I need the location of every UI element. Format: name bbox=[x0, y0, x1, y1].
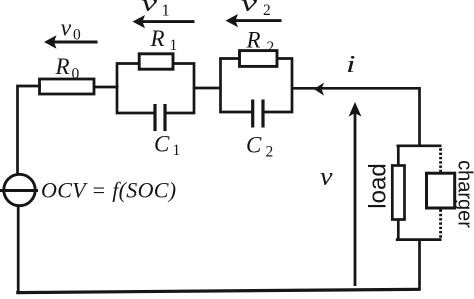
wire left rail upper with R0 left lead bbox=[18, 86, 42, 176]
wire top right with current direction and right rail upper bbox=[292, 88, 420, 146]
svg-text:v: v bbox=[61, 16, 72, 42]
wire bottom rail bbox=[16, 289, 420, 292]
arrow v2 line bbox=[234, 19, 282, 22]
svg-text:R: R bbox=[246, 28, 261, 53]
svg-text:2: 2 bbox=[266, 144, 274, 161]
svg-text:C: C bbox=[246, 133, 262, 158]
wire load branch lower bbox=[397, 219, 400, 240]
label R2 bbox=[246, 28, 275, 57]
arrowhead v up bbox=[349, 102, 362, 117]
svg-text:2: 2 bbox=[263, 2, 271, 19]
arrow v1 line bbox=[141, 20, 195, 23]
label R0 bbox=[55, 54, 80, 83]
voltage source OCV circle bbox=[0, 174, 38, 205]
svg-text:C: C bbox=[154, 132, 170, 157]
wire charger dotted lower bbox=[439, 210, 442, 239]
resistor load box bbox=[392, 166, 404, 220]
wire load branch upper bbox=[397, 146, 400, 167]
svg-text:1: 1 bbox=[162, 1, 170, 20]
svg-text:charger: charger bbox=[454, 160, 474, 228]
wire right rail lower bbox=[418, 239, 421, 291]
label C2 bbox=[246, 133, 273, 161]
arrow v0 line bbox=[52, 41, 98, 44]
svg-text:0: 0 bbox=[72, 66, 80, 83]
arrowhead v0 bbox=[44, 35, 57, 48]
svg-text:OCV = f(SOC): OCV = f(SOC) bbox=[41, 178, 176, 203]
capacitor C2 bbox=[253, 100, 263, 128]
label v0 bbox=[61, 16, 82, 44]
arrow v line bbox=[354, 112, 357, 286]
svg-text:R: R bbox=[150, 26, 165, 51]
svg-text:v: v bbox=[241, 0, 258, 17]
node block R2C2 right half outline bbox=[264, 59, 292, 113]
label R1 bbox=[150, 26, 178, 54]
capacitor C1 bbox=[155, 104, 165, 131]
svg-text:1: 1 bbox=[173, 142, 181, 159]
resistor R2 bbox=[240, 51, 278, 67]
svg-text:load: load bbox=[365, 163, 392, 208]
arrowhead v1 bbox=[133, 15, 146, 28]
svg-text:i: i bbox=[346, 52, 356, 78]
wire load charger top bar bbox=[397, 144, 442, 147]
label C1 bbox=[154, 132, 180, 160]
node block R2C2 left half outline bbox=[221, 59, 252, 113]
svg-text:0: 0 bbox=[73, 27, 81, 44]
charger box bbox=[427, 173, 455, 208]
svg-text:v: v bbox=[142, 0, 158, 17]
resistor R0 bbox=[40, 79, 95, 94]
label v2 bbox=[241, 0, 271, 19]
wire charger dotted upper bbox=[439, 148, 442, 172]
svg-text:2: 2 bbox=[267, 39, 275, 56]
svg-text:R: R bbox=[55, 54, 70, 79]
arrowhead current i bbox=[314, 83, 324, 96]
wire lead between blocks bbox=[194, 87, 222, 90]
wire R0 right lead bbox=[94, 86, 119, 89]
wire left rail lower bbox=[17, 205, 20, 294]
node block R1C1 right half outline bbox=[166, 64, 194, 114]
svg-text:1: 1 bbox=[170, 37, 178, 54]
arrowhead v2 bbox=[226, 14, 239, 27]
node block R1C1 left half outline bbox=[117, 64, 154, 114]
svg-text:v: v bbox=[320, 164, 334, 191]
resistor R1 bbox=[139, 54, 173, 69]
wire load charger bottom bar bbox=[396, 238, 442, 241]
label v1 bbox=[142, 0, 170, 19]
